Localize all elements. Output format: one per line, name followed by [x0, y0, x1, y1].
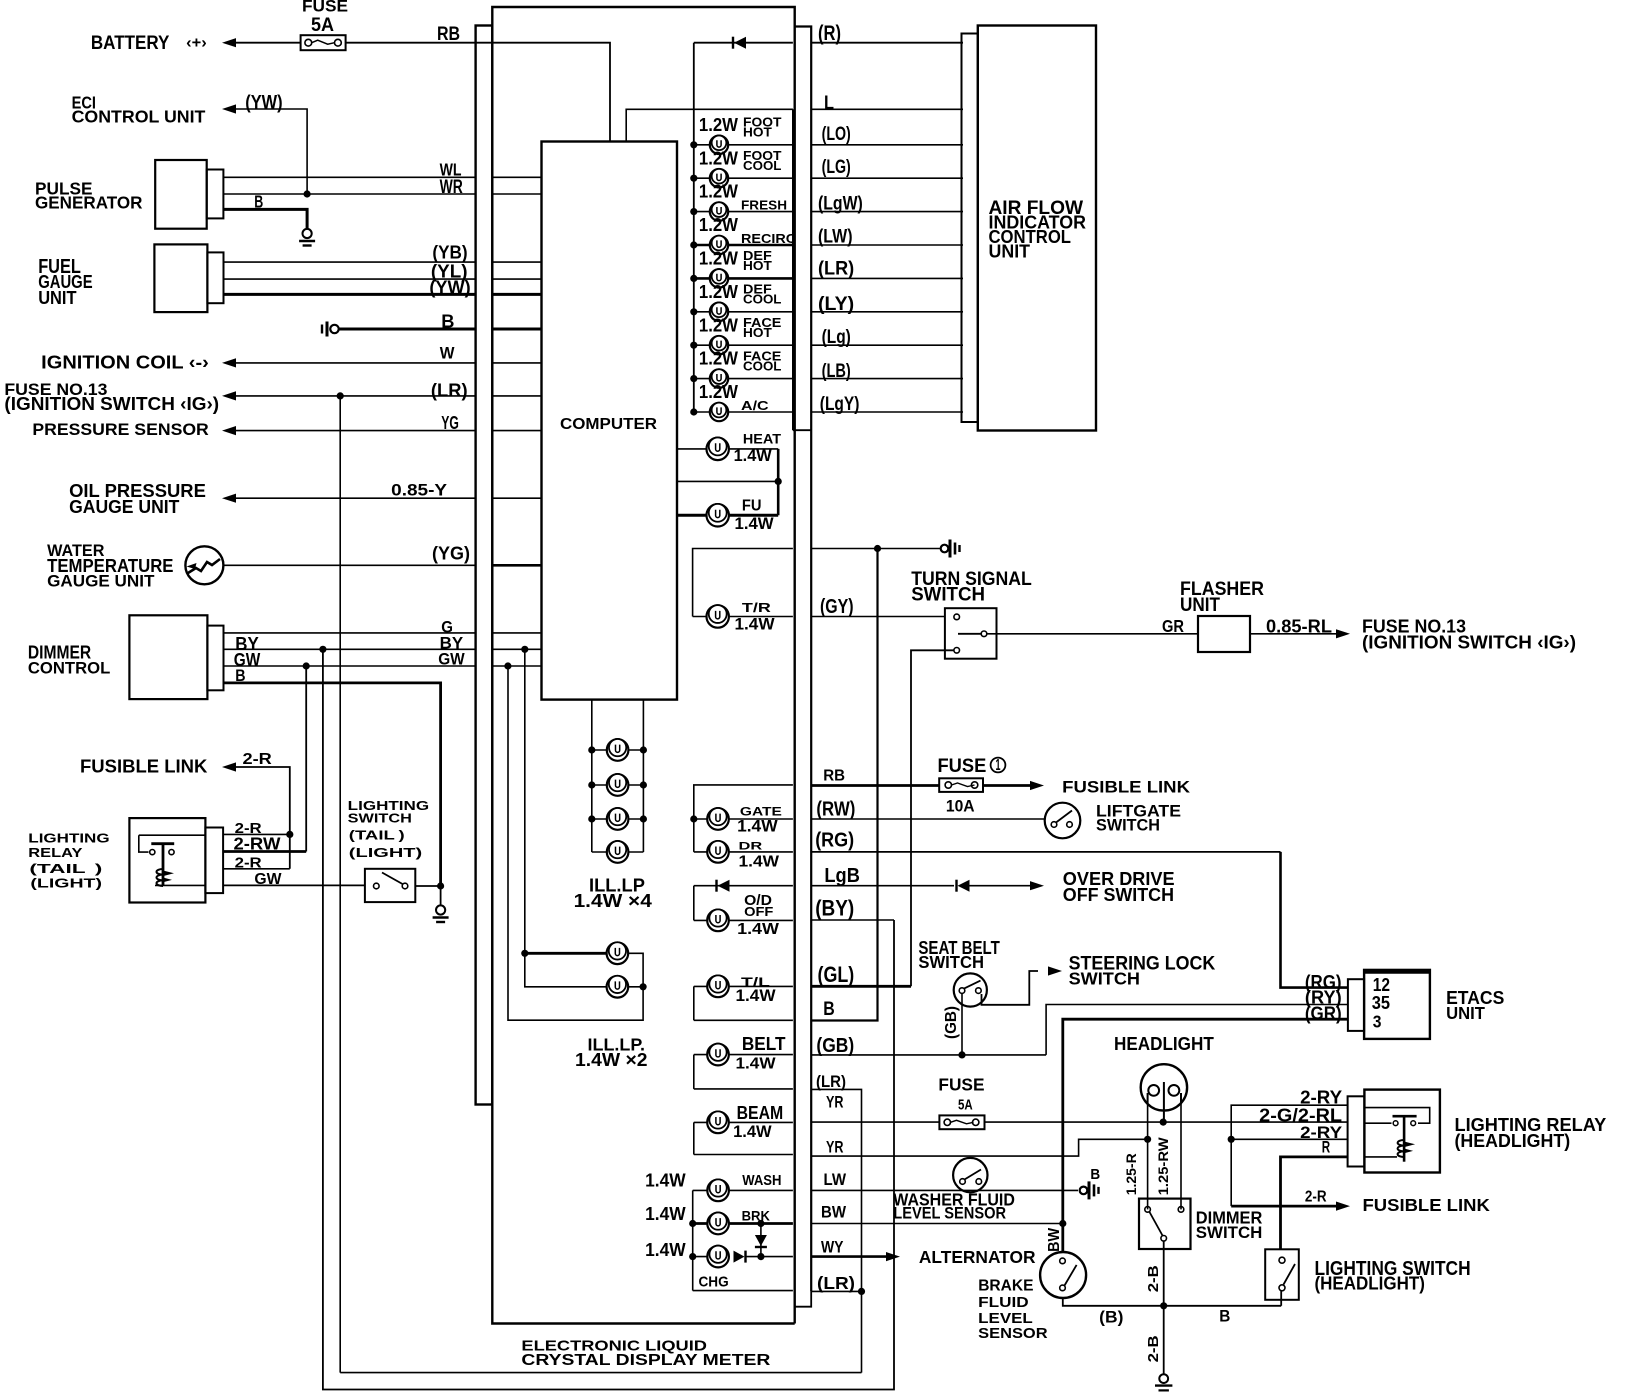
- lamp GATE 1.4W: [694, 818, 793, 820]
- wire YR beam bottom: [694, 1154, 793, 1156]
- svg-text:RELAY: RELAY: [28, 845, 83, 860]
- junction WR/(YW): [304, 190, 311, 197]
- svg-text:LgB: LgB: [824, 865, 860, 887]
- svg-text:YR: YR: [826, 1137, 844, 1156]
- junction (LR) bottom: [858, 1288, 865, 1295]
- wash-brk-chg box: [692, 1190, 694, 1290]
- junction GW: [303, 662, 310, 669]
- svg-text:(LgW): (LgW): [818, 193, 863, 215]
- svg-text:1.4W: 1.4W: [735, 615, 775, 634]
- wire GW relay to switch: [223, 884, 365, 886]
- svg-text:1.4W: 1.4W: [734, 446, 772, 465]
- liftgate switch: [1045, 803, 1081, 839]
- svg-text:UNIT: UNIT: [1180, 594, 1220, 616]
- lamp FACE COOL 1.2W: [694, 378, 793, 380]
- air flow indicator control unit box: [978, 26, 1096, 431]
- svg-text:W: W: [440, 344, 455, 362]
- svg-text:1.2W: 1.2W: [699, 148, 739, 168]
- wire GW: [224, 665, 476, 667]
- svg-text:3: 3: [1373, 1011, 1382, 1031]
- wire (LR) bottom loop: [340, 1372, 861, 1374]
- washer fluid level sensor: [953, 1158, 987, 1192]
- svg-text:WR: WR: [440, 176, 463, 198]
- svg-text:UNIT: UNIT: [989, 241, 1031, 261]
- svg-text:COOL: COOL: [743, 293, 782, 307]
- svg-text:BW: BW: [821, 1202, 846, 1221]
- turn signal switch box: [945, 608, 997, 659]
- wire (YG) water temp: [223, 564, 475, 566]
- wire (LR) right upper: [811, 1089, 861, 1372]
- relay tail contact: [139, 835, 206, 885]
- ground 2-B: [1155, 1374, 1172, 1390]
- wire 2-R to fusible link: [222, 762, 236, 771]
- wire WY to alternator: [811, 1255, 886, 1258]
- junction (LR): [337, 392, 344, 399]
- svg-text:SWITCH: SWITCH: [1196, 1223, 1263, 1242]
- pulse generator box: [155, 160, 207, 229]
- wire to ground (top right): [811, 548, 941, 550]
- svg-text:1.4W: 1.4W: [736, 1054, 777, 1072]
- svg-text:(TAIL ): (TAIL ): [349, 828, 405, 843]
- wire YR2: [811, 1139, 1147, 1156]
- svg-text:(R): (R): [818, 22, 841, 45]
- svg-text:SENSOR: SENSOR: [978, 1325, 1048, 1342]
- svg-text:WASH: WASH: [742, 1173, 781, 1189]
- svg-text:COOL: COOL: [743, 159, 782, 173]
- wire (YW) to ECI: [222, 104, 236, 113]
- svg-text:GW: GW: [254, 871, 282, 888]
- wire RB to fuse 1: [811, 784, 939, 787]
- wire (GL) to turn signal: [811, 985, 911, 988]
- svg-text:(RW): (RW): [816, 799, 855, 821]
- svg-text:2-B: 2-B: [1146, 1335, 1162, 1362]
- wire B dimmer: [224, 683, 441, 886]
- svg-text:FRESH: FRESH: [741, 199, 787, 213]
- wire RB battery to computer: [222, 38, 236, 47]
- fuse F3 5A: [939, 1115, 984, 1129]
- svg-text:1.2W: 1.2W: [699, 115, 739, 135]
- wire L row: [626, 109, 793, 141]
- lighting relay tail light box: [129, 818, 205, 902]
- wire GR to flasher: [987, 633, 1198, 635]
- wire BW right: [811, 1223, 1063, 1225]
- svg-text:‹+›: ‹+›: [186, 35, 207, 52]
- wire R relay: [1281, 1157, 1348, 1249]
- lamp RECIRC 1.2W: [694, 244, 793, 247]
- svg-text:GENERATOR: GENERATOR: [35, 192, 143, 212]
- lamp BEAM 1.4W: [694, 1121, 793, 1123]
- wire 2-R relay upper: [223, 833, 290, 835]
- wire BY: [224, 648, 476, 650]
- ETACS unit connector: [1348, 979, 1364, 1031]
- lamp WASH 1.4W: [693, 1189, 793, 1191]
- svg-text:1.4W: 1.4W: [736, 986, 776, 1005]
- svg-text:BW: BW: [1046, 1228, 1063, 1252]
- svg-text:2-R: 2-R: [235, 856, 263, 872]
- svg-text:LEVEL SENSOR: LEVEL SENSOR: [893, 1205, 1006, 1223]
- svg-text:B: B: [441, 311, 454, 332]
- diode D2 overdrive: [957, 880, 970, 892]
- lighting switch tail light: [365, 869, 415, 902]
- lamp bus vertical: [693, 43, 695, 413]
- ground washer fluid B: [1080, 1181, 1099, 1199]
- wire (LO) to air flow: [811, 144, 963, 146]
- svg-text:HEADLIGHT: HEADLIGHT: [1114, 1033, 1214, 1054]
- wire YR1 headlight feed: [811, 1121, 939, 1123]
- svg-text:(YW): (YW): [245, 91, 282, 113]
- svg-text:GAUGE UNIT: GAUGE UNIT: [47, 573, 154, 591]
- lamp FRESH 1.2W: [694, 211, 793, 213]
- ground turn signal area: [941, 540, 960, 558]
- svg-text:GR: GR: [1162, 616, 1184, 636]
- chg box bottom (LR) row: [693, 1290, 793, 1292]
- junction B/GW ground: [437, 882, 444, 889]
- svg-text:HEAT: HEAT: [743, 432, 781, 448]
- svg-text:(LIGHT): (LIGHT): [349, 845, 422, 860]
- svg-text:1.25-R: 1.25-R: [1124, 1153, 1139, 1195]
- computer box U1: [542, 142, 678, 700]
- lamp A/C 1.2W: [694, 411, 793, 413]
- lamp CHG 1.4W: [693, 1256, 729, 1258]
- svg-text:RECIRC: RECIRC: [741, 232, 796, 246]
- svg-text:FUSIBLE LINK: FUSIBLE LINK: [1062, 777, 1190, 796]
- svg-text:1.4W ×4: 1.4W ×4: [574, 891, 652, 911]
- wire (B) brake to junction: [1063, 1298, 1281, 1306]
- wire B pulse generator to ground: [223, 209, 307, 228]
- wire BY vertical to ill.lp x2: [524, 649, 526, 953]
- air flow indicator control unit connector: [962, 34, 978, 423]
- svg-text:1.4W ×2: 1.4W ×2: [575, 1050, 648, 1070]
- svg-text:(B): (B): [1099, 1307, 1123, 1326]
- beam box: [693, 1122, 695, 1154]
- wire (LR) to air flow: [811, 277, 963, 279]
- lamp FOOT HOT 1.2W: [694, 144, 793, 146]
- svg-text:SWITCH: SWITCH: [1096, 815, 1160, 834]
- svg-text:1.2W: 1.2W: [699, 349, 739, 369]
- lamp ladder right edge: [792, 109, 794, 430]
- svg-text:FUSE: FUSE: [302, 0, 348, 15]
- svg-text:FUSE: FUSE: [938, 755, 987, 777]
- svg-text:RB: RB: [437, 23, 460, 45]
- svg-text:CONTROL UNIT: CONTROL UNIT: [72, 107, 206, 127]
- wire (GL) up to switch: [911, 650, 954, 986]
- wire (RW) to liftgate switch: [811, 818, 1045, 820]
- svg-text:(LR): (LR): [431, 380, 468, 401]
- svg-text:(LIGHT): (LIGHT): [30, 875, 102, 890]
- svg-text:B: B: [823, 998, 835, 1020]
- ground tail light switch: [440, 886, 442, 905]
- diode D3 brk-chg: [760, 1224, 762, 1257]
- wire (LR) belt row: [694, 1088, 793, 1090]
- svg-text:HOT: HOT: [743, 326, 772, 340]
- wire B lighting switch to ground junction: [1280, 1291, 1282, 1306]
- svg-text:HOT: HOT: [743, 259, 772, 273]
- junction 1.25-R: [1144, 1136, 1151, 1143]
- lamp ILL.LP row y819: [592, 818, 644, 820]
- seat belt switch: [954, 973, 987, 1006]
- svg-text:YG: YG: [441, 412, 459, 433]
- svg-text:(YG): (YG): [432, 543, 470, 564]
- wire WL: [223, 176, 475, 178]
- wire (LR) vertical down: [339, 396, 341, 1373]
- junction B net top: [874, 545, 881, 552]
- svg-text:BEAM: BEAM: [737, 1102, 784, 1123]
- lamp ILL.LP row y785: [592, 784, 644, 786]
- lighting relay headlight box: [1364, 1090, 1440, 1173]
- svg-text:OFF SWITCH: OFF SWITCH: [1063, 885, 1174, 905]
- wire 1.25-RW: [1180, 1104, 1182, 1210]
- wire (LR): [222, 391, 236, 400]
- svg-text:(IGNITION SWITCH ‹IG›): (IGNITION SWITCH ‹IG›): [1362, 632, 1576, 653]
- svg-text:DR: DR: [739, 841, 763, 853]
- wire to air flow unit (R) left segment: [694, 42, 793, 44]
- wire GW switch to ground node: [415, 885, 440, 887]
- svg-text:1.4W: 1.4W: [737, 818, 778, 836]
- lamp ILL.LP 2a: [607, 942, 629, 964]
- wire to over drive off switch: [969, 885, 1031, 887]
- wire 2-B lower to ground: [1163, 1306, 1165, 1374]
- svg-text:(YB): (YB): [432, 241, 467, 262]
- gate-dr box: [694, 785, 793, 852]
- svg-text:(YW): (YW): [429, 277, 470, 298]
- wire (BY) right: [811, 919, 894, 921]
- svg-text:FLUID: FLUID: [978, 1294, 1029, 1311]
- svg-text:BELT: BELT: [742, 1033, 786, 1054]
- junction BW: [1059, 1220, 1066, 1227]
- fuse F2 10A: [939, 778, 983, 792]
- svg-text:(IGNITION SWITCH ‹IG›): (IGNITION SWITCH ‹IG›): [4, 393, 219, 414]
- svg-text:(HEADLIGHT): (HEADLIGHT): [1315, 1273, 1425, 1294]
- svg-text:1.2W: 1.2W: [699, 249, 739, 269]
- svg-text:A/C: A/C: [741, 399, 769, 413]
- junction (GB): [958, 1051, 965, 1058]
- svg-text:0.85-RL: 0.85-RL: [1266, 616, 1332, 636]
- lamp BRK 1.4W: [693, 1222, 793, 1225]
- wire LW right: [811, 1189, 1078, 1191]
- meter connector strip: [476, 26, 493, 1105]
- wire (RG) to ETACS: [811, 851, 1280, 853]
- wire 2-G/2-RL headlight to relay: [985, 1121, 1348, 1123]
- wire (LW) to air flow: [811, 244, 963, 246]
- svg-text:BRAKE: BRAKE: [978, 1278, 1033, 1295]
- wire T/R box top: [693, 549, 793, 617]
- ETACS unit box: [1364, 970, 1430, 1039]
- svg-text:1.2W: 1.2W: [699, 182, 739, 202]
- brake fluid level sensor: [1040, 1252, 1086, 1298]
- svg-text:(BY): (BY): [815, 895, 854, 920]
- relay headlight contact: [1364, 1108, 1429, 1162]
- svg-text:SWITCH: SWITCH: [348, 811, 412, 826]
- wire to fusible link right: [983, 784, 1030, 787]
- wire (YW) fuel: [224, 293, 476, 296]
- wire 2-RW relay: [223, 850, 306, 853]
- svg-text:BRK: BRK: [742, 1207, 770, 1223]
- svg-text:T/R: T/R: [742, 600, 772, 615]
- lamp FOOT COOL 1.2W: [694, 177, 793, 179]
- wire 2-B upper: [1163, 1241, 1165, 1306]
- svg-text:RB: RB: [823, 767, 845, 784]
- ill.lp x2 wiring: [525, 952, 618, 955]
- headlight: [1141, 1064, 1187, 1122]
- svg-text:1.2W: 1.2W: [699, 282, 739, 302]
- ground pulse generator: [299, 229, 315, 246]
- svg-text:BATTERY: BATTERY: [91, 32, 169, 54]
- lamp FU 1.4W: [677, 514, 778, 517]
- lamp ladder bottom jog: [793, 429, 811, 431]
- bus wire right of lamp ladder: [795, 27, 812, 1292]
- lighting relay headlight connector: [1348, 1096, 1365, 1166]
- o/d off box: [693, 886, 695, 921]
- svg-text:1.4W: 1.4W: [645, 1240, 686, 1260]
- svg-text:1.4W: 1.4W: [737, 921, 779, 938]
- relay headlight coil: [1398, 1140, 1416, 1157]
- svg-text:(LB): (LB): [822, 360, 851, 382]
- svg-text:1.4W: 1.4W: [735, 514, 774, 533]
- wire (LgW) to air flow: [811, 211, 963, 213]
- wire B to computer: [339, 328, 476, 331]
- ground B wire: [322, 322, 339, 337]
- svg-text:SWITCH: SWITCH: [911, 585, 985, 606]
- wire 2-R to fusible link bottom: [1231, 1205, 1336, 1208]
- svg-text:CHG: CHG: [699, 1274, 729, 1291]
- svg-text:CONTROL: CONTROL: [28, 659, 110, 677]
- wire steering lock: [982, 971, 1039, 1005]
- lamp DEF COOL 1.2W: [694, 311, 793, 313]
- junction BRK diode: [757, 1220, 764, 1227]
- junction 2-R: [286, 831, 293, 838]
- wire WR: [223, 193, 475, 195]
- belt box: [693, 1055, 695, 1089]
- svg-text:1.2W: 1.2W: [699, 382, 739, 402]
- svg-text:(LR): (LR): [818, 258, 854, 280]
- svg-text:(LO): (LO): [822, 123, 851, 145]
- wire (Lg) to air flow: [811, 344, 963, 346]
- wire B right: [811, 549, 877, 1021]
- svg-text:CRYSTAL DISPLAY METER: CRYSTAL DISPLAY METER: [521, 1352, 770, 1369]
- wire (GR) to brake sensor: [1063, 1019, 1348, 1252]
- svg-text:(HEADLIGHT): (HEADLIGHT): [1455, 1131, 1571, 1152]
- svg-text:LIGHTING: LIGHTING: [28, 831, 109, 846]
- fuse F1 5A: [301, 35, 346, 50]
- lamp HEAT 1.4W: [677, 448, 778, 450]
- svg-text:B: B: [1090, 1166, 1100, 1183]
- wire W: [222, 358, 236, 367]
- svg-text:1.4W: 1.4W: [645, 1204, 686, 1224]
- svg-text:YR: YR: [826, 1092, 844, 1111]
- wire G: [224, 632, 476, 634]
- fuel gauge unit box: [154, 244, 207, 312]
- svg-text:B: B: [254, 191, 263, 211]
- lamp T/L 1.4W: [694, 985, 793, 987]
- wire (LR) bottom: [811, 1290, 861, 1292]
- svg-text:WY: WY: [821, 1237, 844, 1256]
- dimmer control box: [129, 615, 207, 699]
- svg-text:1: 1: [996, 757, 1001, 774]
- junction headlight common: [1160, 1119, 1167, 1126]
- diode D1: [733, 37, 746, 49]
- lamp FACE HOT 1.2W: [694, 344, 793, 346]
- svg-text:PRESSURE SENSOR: PRESSURE SENSOR: [32, 421, 209, 439]
- svg-text:(GY): (GY): [820, 595, 854, 618]
- wire (GB) right: [811, 1054, 1046, 1056]
- svg-text:2-B: 2-B: [1146, 1265, 1162, 1292]
- svg-text:(RG): (RG): [815, 830, 854, 852]
- junction 2-B: [1160, 1302, 1167, 1309]
- wire (LY) to air flow: [811, 311, 963, 313]
- svg-text:FU: FU: [742, 498, 762, 515]
- svg-text:2-R: 2-R: [1305, 1189, 1327, 1206]
- svg-text:FUSIBLE LINK: FUSIBLE LINK: [80, 756, 207, 776]
- svg-text:5A: 5A: [311, 14, 334, 36]
- wire LgB: [811, 885, 954, 887]
- svg-text:LW: LW: [824, 1170, 847, 1189]
- lamp ILL.LP 2b: [607, 976, 629, 998]
- wire YG: [222, 426, 236, 435]
- lamp ILL.LP row y750: [592, 749, 644, 751]
- junction BY: [319, 646, 326, 653]
- svg-text:GW: GW: [438, 651, 465, 669]
- ill.lp x4 right vertical: [642, 700, 644, 852]
- wire B row: [694, 1019, 793, 1021]
- svg-text:UNIT: UNIT: [38, 287, 76, 308]
- svg-text:FUSIBLE LINK: FUSIBLE LINK: [1363, 1195, 1491, 1215]
- lighting switch headlight box: [1265, 1249, 1299, 1300]
- svg-text:2-R: 2-R: [243, 751, 273, 768]
- wire (LG) to air flow: [811, 177, 963, 179]
- junction BY computer side: [521, 646, 528, 653]
- svg-text:1.2W: 1.2W: [699, 215, 739, 235]
- svg-text:5A: 5A: [958, 1096, 973, 1113]
- svg-text:B: B: [1219, 1306, 1230, 1325]
- svg-text:(Lg): (Lg): [822, 326, 851, 348]
- wire (GB) seat belt drop: [961, 993, 963, 1055]
- wire HEAT-FU link: [677, 480, 778, 482]
- svg-text:1.2W: 1.2W: [699, 315, 739, 335]
- svg-text:1.4W: 1.4W: [739, 854, 780, 871]
- wire (LgY) to air flow: [811, 411, 963, 413]
- water temperature sensor: [185, 546, 223, 584]
- wire BY vertical down to bottom: [323, 649, 894, 1389]
- wire L to air flow: [811, 108, 963, 110]
- wire 2-RY upper: [1231, 1105, 1348, 1206]
- svg-text:(GB): (GB): [816, 1035, 854, 1057]
- svg-text:12: 12: [1373, 975, 1390, 995]
- svg-text:(LgY): (LgY): [820, 393, 860, 415]
- wire (LB) to air flow: [811, 378, 963, 380]
- svg-text:(LY): (LY): [818, 293, 854, 315]
- dimmer switch box: [1139, 1199, 1191, 1249]
- ill.lp x4 left vertical: [591, 700, 593, 852]
- wire GW vertical to relay: [305, 666, 307, 852]
- svg-text:OFF: OFF: [744, 904, 773, 919]
- lamp DR 1.4W: [694, 851, 793, 853]
- wire (RY) to ETACS: [1046, 1005, 1348, 1055]
- wire 2-RY lower: [1231, 1138, 1348, 1140]
- svg-text:R: R: [1322, 1138, 1330, 1157]
- svg-text:1.4W: 1.4W: [645, 1171, 686, 1191]
- svg-text:2-RW: 2-RW: [234, 834, 282, 854]
- svg-text:(GL): (GL): [818, 962, 855, 987]
- svg-text:SWITCH: SWITCH: [1069, 969, 1140, 989]
- lamp ILL.LP row y852: [592, 851, 644, 853]
- svg-text:10A: 10A: [946, 796, 975, 815]
- junction GW computer side: [504, 662, 511, 669]
- wire (GY) to turn signal switch: [811, 616, 945, 618]
- svg-text:(GB): (GB): [943, 1006, 960, 1039]
- diode D4 chg: [734, 1251, 746, 1263]
- wire 0.85-Y: [222, 494, 236, 503]
- svg-text:L: L: [824, 92, 834, 114]
